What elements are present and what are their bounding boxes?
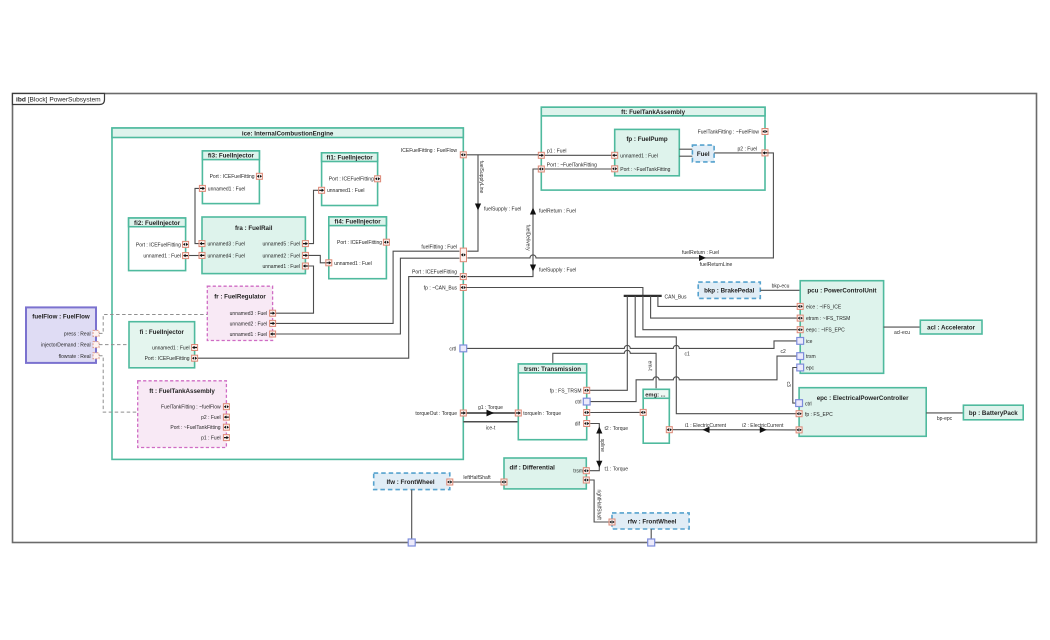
port pcu.trsm (blue) bbox=[797, 353, 804, 360]
block pcu : PowerControlUnit bbox=[800, 281, 883, 374]
svg-text:ibd [Block] PowerSubsystem: ibd [Block] PowerSubsystem bbox=[16, 97, 101, 104]
svg-text:unnamed3 : Fuel: unnamed3 : Fuel bbox=[208, 242, 246, 248]
port fp.unnamed1 bbox=[612, 152, 618, 158]
svg-text:fi1: FuelInjector: fi1: FuelInjector bbox=[327, 155, 374, 162]
wire connector c2: trsm.ctrl to pcu.trsm bbox=[590, 356, 797, 402]
svg-text:Fuel: Fuel bbox=[697, 151, 710, 158]
port fr.unnamed2 bbox=[270, 320, 276, 326]
wire bus to pcu.eepc bbox=[643, 296, 797, 330]
port emg right bbox=[666, 427, 672, 433]
svg-text:unnamed1 : Fuel: unnamed1 : Fuel bbox=[620, 153, 658, 159]
wire connector em-t: trsm top to emg top bbox=[553, 350, 656, 388]
svg-text:unnamed3 : Fuel: unnamed3 : Fuel bbox=[230, 311, 268, 317]
block ft: FuelTankAssembly bbox=[541, 107, 765, 190]
wire fuelReturnLine: fuelFitting to ft.p2 riser bbox=[467, 153, 773, 258]
wire spline: trsm.dif to dif.trsm bbox=[590, 424, 600, 471]
svg-text:torqueOut : Torque: torqueOut : Torque bbox=[415, 411, 457, 417]
block fi1: FuelInjector bbox=[322, 153, 378, 206]
svg-text:fuelSupply : Fuel: fuelSupply : Fuel bbox=[539, 267, 576, 273]
port dif left bbox=[501, 479, 507, 485]
wire ice.Port ICEFuelFitting to fi.Port bbox=[198, 277, 460, 359]
block lfw : FrontWheel bbox=[374, 473, 450, 490]
port dif right lower bbox=[583, 477, 589, 483]
svg-text:fi2: FuelInjector: fi2: FuelInjector bbox=[134, 220, 181, 227]
wire i1/i2: emg to epc bbox=[673, 429, 796, 431]
wire acl-ecu bbox=[884, 326, 921, 328]
svg-text:rfw : FrontWheel: rfw : FrontWheel bbox=[628, 518, 677, 525]
svg-text:unnamed1 : Fuel: unnamed1 : Fuel bbox=[327, 188, 365, 194]
frame tab ibd [Block] PowerSubsystem bbox=[13, 94, 105, 105]
block ice: InternalCombustionEngine bbox=[112, 128, 463, 459]
port ice.Port : ICEFuelFitting bbox=[460, 274, 466, 280]
wire rfw to frame bottom bbox=[650, 529, 652, 543]
flow arrow fuelSupply down bbox=[530, 265, 536, 272]
port trsm.dif bbox=[584, 421, 590, 427]
flow arrow t1 down bbox=[596, 461, 602, 468]
svg-text:Port : ICEFuelFitting: Port : ICEFuelFitting bbox=[412, 269, 457, 275]
wire fr.unnamed2 to port fuelFitting bbox=[276, 251, 460, 323]
svg-text:rightHalfShaft: rightHalfShaft bbox=[595, 490, 601, 521]
block fr : FuelRegulator bbox=[207, 286, 272, 340]
svg-text:epc: epc bbox=[806, 366, 815, 372]
wire ice-t: ice edge to trsm edge bbox=[463, 421, 518, 423]
port ft.FuelTankFitting (right edge) bbox=[762, 129, 768, 135]
svg-text:Port : ICEFuelFitting: Port : ICEFuelFitting bbox=[337, 240, 382, 246]
svg-text:eepc : ~IFS_EPC: eepc : ~IFS_EPC bbox=[806, 328, 845, 334]
flow arrow i1 (left) bbox=[703, 427, 710, 433]
port epc.ctrl (blue) bbox=[796, 400, 803, 407]
dashed wire press to fr bbox=[99, 315, 207, 334]
svg-text:unnamed1 : Fuel: unnamed1 : Fuel bbox=[143, 254, 181, 260]
svg-text:unnamed1 : Fuel: unnamed1 : Fuel bbox=[262, 264, 300, 270]
block emg: ... bbox=[643, 389, 669, 443]
port ice.ICEFuelFitting : FuelFlow bbox=[460, 152, 466, 158]
svg-text:p2 : Fuel: p2 : Fuel bbox=[201, 415, 220, 421]
port fi4.unnamed1 bbox=[326, 260, 332, 266]
port ft.Port (left edge) bbox=[538, 166, 544, 172]
diagram frame border bbox=[13, 94, 1037, 543]
block fra : FuelRail bbox=[202, 217, 305, 274]
svg-text:p1 : Fuel: p1 : Fuel bbox=[547, 148, 566, 154]
svg-text:Port : ICEFuelFitting: Port : ICEFuelFitting bbox=[145, 356, 190, 362]
port fi.Port : ICEFuelFitting bbox=[192, 355, 198, 361]
svg-text:fuelSupply : Fuel: fuelSupply : Fuel bbox=[484, 206, 521, 212]
port ft.p2 (right edge) bbox=[762, 150, 768, 156]
port epc lower left bbox=[796, 427, 802, 433]
port ft.p1 bbox=[223, 435, 229, 441]
flow arrow t2 up bbox=[596, 427, 602, 434]
port fuelFlow.injectorDemand bbox=[93, 342, 99, 348]
wire lfw to frame bottom bbox=[411, 490, 413, 543]
svg-text:acl-ecu: acl-ecu bbox=[894, 330, 910, 336]
port fi3.unnamed1 bbox=[199, 185, 205, 191]
wire bp-epc bbox=[926, 412, 963, 414]
port rfw left bbox=[609, 519, 615, 525]
wire fp to Fuel box (upper) bbox=[679, 148, 692, 150]
svg-text:unnamed2 : Fuel: unnamed2 : Fuel bbox=[230, 321, 268, 327]
wire fr.unnamed1 to port fuelFitting lower bbox=[276, 258, 460, 334]
svg-text:ft: FuelTankAssembly: ft: FuelTankAssembly bbox=[621, 109, 685, 116]
wire fp to Fuel box (lower) bbox=[679, 155, 692, 157]
item box Fuel bbox=[692, 145, 714, 162]
block fi3: FuelInjector bbox=[202, 151, 259, 204]
wire bus to epc.fp bbox=[635, 296, 796, 414]
svg-text:Port : ICEFuelFitting: Port : ICEFuelFitting bbox=[136, 242, 181, 248]
wire trsm right to emg left bbox=[590, 411, 640, 413]
port ft.p2 bbox=[223, 414, 229, 420]
wire ice.fp to CAN bus bbox=[466, 288, 643, 296]
svg-text:unnamed1 : Fuel: unnamed1 : Fuel bbox=[152, 346, 190, 352]
svg-text:ft : FuelTankAssembly: ft : FuelTankAssembly bbox=[149, 388, 215, 395]
wire bus to pcu.etrsm bbox=[651, 296, 798, 318]
block rfw : FrontWheel bbox=[612, 513, 689, 529]
svg-text:fi4: FuelInjector: fi4: FuelInjector bbox=[335, 219, 382, 226]
svg-text:crtl: crtl bbox=[449, 346, 456, 352]
svg-text:eice : ~IFS_ICE: eice : ~IFS_ICE bbox=[806, 304, 842, 310]
svg-text:fi3: FuelInjector: fi3: FuelInjector bbox=[208, 153, 255, 160]
svg-text:unnamed1 : Fuel: unnamed1 : Fuel bbox=[230, 332, 268, 338]
wire bus to trsm.fp bbox=[590, 296, 628, 390]
block fi4: FuelInjector bbox=[329, 217, 387, 279]
svg-text:fp : ~CAN_Bus: fp : ~CAN_Bus bbox=[424, 286, 458, 292]
flow arrow i2 (right) bbox=[760, 427, 767, 433]
port fra.unnamed4 bbox=[199, 252, 205, 258]
svg-text:fuelReturn : Fuel: fuelReturn : Fuel bbox=[539, 208, 576, 214]
svg-text:fuelFlow : FuelFlow: fuelFlow : FuelFlow bbox=[32, 314, 90, 321]
svg-text:fra : FuelRail: fra : FuelRail bbox=[235, 225, 273, 232]
svg-text:epc : ElectricalPowerControlle: epc : ElectricalPowerController bbox=[817, 395, 909, 402]
port ft.FuelTankFitting bbox=[223, 404, 229, 410]
port ice.fp : ~CAN_Bus bbox=[460, 285, 466, 291]
port fi4.Port : ICEFuelFitting bbox=[383, 239, 389, 245]
wire ft.Port to fp.Port bbox=[544, 168, 611, 170]
svg-text:FuelTankFitting : ~FuelFlow: FuelTankFitting : ~FuelFlow bbox=[698, 130, 760, 136]
junction rfw-frame (blue square) bbox=[648, 539, 655, 546]
port trsm.fp : FS_TRSM bbox=[584, 387, 590, 393]
wire ft.p1 to fp.unnamed1 bbox=[544, 154, 611, 156]
wire fuelDelivery: ft.Port to ice.Port bbox=[467, 169, 538, 277]
wire g1: ice.torqueOut to trsm.torqueIn bbox=[466, 412, 515, 414]
svg-text:c3: c3 bbox=[785, 382, 791, 388]
block ft : FuelTankAssembly (left) bbox=[138, 381, 227, 448]
wire fra.unnamed1 to fr.unnamed3 bbox=[276, 266, 314, 313]
svg-text:trsm: trsm bbox=[806, 354, 816, 360]
svg-text:fuelReturnLine: fuelReturnLine bbox=[700, 262, 733, 268]
CAN bus bar bbox=[624, 295, 662, 297]
svg-text:acl : Accelerator: acl : Accelerator bbox=[927, 325, 976, 332]
block bp : BatteryPack bbox=[963, 405, 1023, 420]
svg-text:unnamed2 : Fuel: unnamed2 : Fuel bbox=[262, 253, 300, 259]
svg-text:bp : BatteryPack: bp : BatteryPack bbox=[969, 410, 1018, 417]
junction lfw-frame (blue square) bbox=[408, 539, 415, 546]
port pcu.eepc bbox=[797, 327, 803, 333]
svg-text:lfw : FrontWheel: lfw : FrontWheel bbox=[386, 479, 434, 486]
svg-text:em-t: em-t bbox=[646, 361, 652, 372]
port emg left bbox=[640, 409, 646, 415]
port fp.Port bbox=[612, 166, 618, 172]
svg-text:fp : FuelPump: fp : FuelPump bbox=[626, 136, 667, 143]
block trsm: Transmission bbox=[518, 364, 586, 440]
svg-text:bkp : BrakePedal: bkp : BrakePedal bbox=[704, 288, 754, 295]
svg-text:ice: InternalCombustionEngine: ice: InternalCombustionEngine bbox=[242, 130, 334, 137]
wire leftHalfShaft: lfw to dif bbox=[453, 481, 501, 483]
svg-text:t2 : Torque: t2 : Torque bbox=[605, 426, 629, 432]
svg-text:g1 : Torque: g1 : Torque bbox=[478, 405, 503, 411]
svg-text:ice-t: ice-t bbox=[486, 426, 496, 432]
svg-text:Port : ~FuelTankFitting: Port : ~FuelTankFitting bbox=[620, 167, 670, 173]
port fra.unnamed1 bbox=[302, 263, 308, 269]
svg-text:torqueIn : Torque: torqueIn : Torque bbox=[523, 411, 561, 417]
wire rightHalfShaft: dif to rfw bbox=[589, 480, 609, 522]
block epc : ElectricalPowerController bbox=[799, 388, 926, 437]
svg-text:ctrl: ctrl bbox=[575, 400, 582, 406]
svg-text:Port : ~FuelTankFitting: Port : ~FuelTankFitting bbox=[547, 162, 597, 168]
port trsm.torqueIn bbox=[515, 410, 521, 416]
wire fi2.unnamed1 to fra.unnamed4 bbox=[189, 255, 199, 257]
port fr.unnamed1 bbox=[270, 331, 276, 337]
wire fra.unnamed2 to fi4.unnamed1 bbox=[308, 255, 325, 262]
port fuelFlow.press bbox=[93, 330, 99, 336]
port fi1.unnamed1 bbox=[319, 187, 325, 193]
svg-text:Port : ICEFuelFitting: Port : ICEFuelFitting bbox=[210, 174, 255, 180]
port fra.unnamed5 bbox=[302, 241, 308, 247]
flow arrow fuelSupply on riser bbox=[475, 204, 481, 211]
svg-text:Port : ~FuelTankFitting: Port : ~FuelTankFitting bbox=[170, 425, 220, 431]
svg-text:fuelFitting : Fuel: fuelFitting : Fuel bbox=[421, 245, 457, 251]
svg-text:flowrate : Real: flowrate : Real bbox=[59, 354, 91, 360]
svg-text:unnamed1 : Fuel: unnamed1 : Fuel bbox=[334, 261, 372, 267]
block acl : Accelerator bbox=[920, 320, 982, 334]
svg-text:ICEFuelFitting : FuelFlow: ICEFuelFitting : FuelFlow bbox=[401, 148, 458, 154]
svg-text:fi : FuelInjector: fi : FuelInjector bbox=[140, 329, 185, 336]
port fra.unnamed3 bbox=[199, 241, 205, 247]
dashed wire injectorDemand to fi bbox=[99, 344, 129, 346]
block bkp : BrakePedal bbox=[698, 282, 760, 298]
port ft.p1 (left edge) bbox=[538, 152, 544, 158]
block dif : Differential bbox=[504, 458, 586, 489]
block fi2: FuelInjector bbox=[129, 218, 186, 271]
port fi2.Port : ICEFuelFitting bbox=[183, 241, 189, 247]
wire fi3.unnamed1 to fra.unnamed3 bbox=[195, 188, 199, 243]
svg-text:i2 : ElectricCurrent: i2 : ElectricCurrent bbox=[742, 423, 784, 429]
svg-text:i1 : ElectricCurrent: i1 : ElectricCurrent bbox=[685, 423, 727, 429]
port pcu.ice (blue) bbox=[797, 338, 804, 345]
svg-text:c1: c1 bbox=[685, 352, 691, 358]
svg-text:fp : FS_TRSM: fp : FS_TRSM bbox=[550, 388, 582, 394]
svg-text:injectorDemand : Real: injectorDemand : Real bbox=[41, 343, 90, 349]
svg-text:trsm: Transmission: trsm: Transmission bbox=[524, 366, 581, 373]
port pcu.epc (blue) bbox=[797, 364, 804, 371]
port fi2.unnamed1 bbox=[183, 253, 189, 259]
wire fuelSupplyLine: ICEFuelFitting to p1 with branch to fuelFitting bbox=[466, 154, 538, 156]
port dif.trsm bbox=[583, 468, 589, 474]
svg-text:Port : ICEFuelFitting: Port : ICEFuelFitting bbox=[329, 177, 374, 183]
svg-text:etrsm : ~IFS_TRSM: etrsm : ~IFS_TRSM bbox=[806, 316, 850, 322]
block fuelFlow : FuelFlow bbox=[26, 307, 96, 363]
svg-text:fr : FuelRegulator: fr : FuelRegulator bbox=[214, 293, 266, 300]
svg-text:fuelDelivery: fuelDelivery bbox=[524, 225, 530, 252]
wire connector c1: ice.crtl to pcu.ice bbox=[467, 341, 797, 349]
port ft.Port bbox=[223, 424, 229, 430]
svg-text:p1 : Fuel: p1 : Fuel bbox=[201, 436, 220, 442]
svg-text:leftHalfShaft: leftHalfShaft bbox=[463, 475, 491, 481]
dashed wire flowrate to ft bbox=[99, 356, 138, 412]
flow arrow fuelReturn up bbox=[530, 208, 536, 215]
svg-text:unnamed4 : Fuel: unnamed4 : Fuel bbox=[208, 253, 246, 259]
svg-text:spline: spline bbox=[599, 439, 605, 452]
port fi3.Port : ICEFuelFitting bbox=[256, 173, 262, 179]
svg-text:t1 : Torque: t1 : Torque bbox=[605, 466, 629, 472]
port ice.fuelFitting : Fuel (tall) bbox=[460, 248, 466, 262]
flow arrow fuelReturn bbox=[699, 255, 706, 261]
wire bus to pcu.eice bbox=[658, 296, 797, 307]
port fra.unnamed2 bbox=[302, 252, 308, 258]
port trsm right unnamed bbox=[584, 410, 590, 416]
svg-text:emg: ...: emg: ... bbox=[645, 393, 666, 399]
svg-text:ctrl: ctrl bbox=[805, 401, 812, 407]
port fi.unnamed1 bbox=[192, 345, 198, 351]
svg-text:CAN_Bus: CAN_Bus bbox=[665, 294, 687, 300]
port ice.torqueOut (on ice right edge) bbox=[460, 410, 466, 416]
svg-text:unnamed5 : Fuel: unnamed5 : Fuel bbox=[262, 242, 300, 248]
svg-text:c2: c2 bbox=[781, 349, 787, 355]
svg-text:dif : Differential: dif : Differential bbox=[510, 465, 556, 472]
svg-text:press : Real: press : Real bbox=[64, 331, 91, 337]
wire bkp-ecu bbox=[760, 289, 800, 291]
port fr.unnamed3 bbox=[270, 310, 276, 316]
svg-text:fp : FS_EPC: fp : FS_EPC bbox=[805, 412, 833, 418]
svg-text:bkp-ecu: bkp-ecu bbox=[772, 284, 790, 290]
port lfw right bbox=[447, 479, 453, 485]
port pcu.eice bbox=[797, 303, 803, 309]
svg-text:bp-epc: bp-epc bbox=[937, 416, 953, 422]
port fuelFlow.flowrate bbox=[93, 353, 99, 359]
port fi1.Port : ICEFuelFitting bbox=[375, 176, 381, 182]
block fp : FuelPump bbox=[615, 129, 680, 175]
block fi : FuelInjector bbox=[129, 322, 195, 368]
svg-text:p2 : Fuel: p2 : Fuel bbox=[738, 146, 757, 152]
svg-text:trsm: trsm bbox=[573, 469, 583, 475]
port epc.fp : FS_EPC bbox=[796, 411, 802, 417]
wire fra.unnamed5 to fi1.unnamed1 bbox=[308, 190, 318, 243]
svg-text:ice: ice bbox=[806, 339, 813, 345]
svg-text:unnamed1 : Fuel: unnamed1 : Fuel bbox=[208, 186, 246, 192]
port ice.crtl (blue) bbox=[460, 345, 467, 352]
svg-text:FuelTankFitting : ~fuelFlow: FuelTankFitting : ~fuelFlow bbox=[161, 405, 221, 411]
wire Fuel box to ft.p2 bbox=[714, 152, 762, 154]
svg-text:pcu : PowerControlUnit: pcu : PowerControlUnit bbox=[807, 288, 876, 295]
port pcu.etrsm bbox=[797, 315, 803, 321]
wire connector c3: pcu.epc to epc.ctrl bbox=[793, 368, 797, 404]
port trsm.ctrl (blue) bbox=[583, 398, 590, 405]
svg-text:fuelSupplyLine: fuelSupplyLine bbox=[478, 161, 484, 194]
svg-text:dif: dif bbox=[575, 422, 581, 428]
svg-text:fuelReturn : Fuel: fuelReturn : Fuel bbox=[682, 250, 719, 256]
